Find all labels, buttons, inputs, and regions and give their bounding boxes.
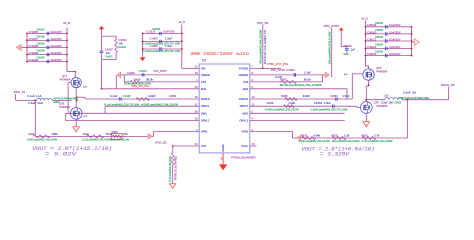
wire PVDD0 pin7 [250,62,288,69]
svg-text:102R,smd0402,1%,1/10W: 102R,smd0402,1%,1/10W [27,140,58,142]
svg-text:10k,smd0402,5%,1/16W: 10k,smd0402,5%,1/16W [329,30,331,64]
svg-text:R466: R466 [267,102,274,105]
svg-text:= 5.02V: = 5.02V [45,152,77,158]
ground below Q76 [363,113,370,126]
capacitor C1404 1.5uF [142,44,183,53]
transistor Q77 PH3456A [60,71,88,89]
svg-text:R478 15.1k R0402: R478 15.1k R0402 [174,155,177,180]
svg-text:C1404: C1404 [150,44,159,48]
svg-text:CM105: CM105 [375,36,384,39]
power symbol P5V_STBY [339,27,344,46]
svg-text:R465: R465 [281,95,288,98]
value TPS51220ARNR [231,155,256,159]
svg-text:P5V_S5: P5V_S5 [257,21,269,25]
svg-text:EN2: EN2 [243,87,249,91]
ground below Q78 [73,119,80,132]
svg-text:CM105: CM105 [37,57,46,60]
svg-text:R470 0R 1uF GND2 TR: R470 0R 1uF GND2 TR [264,30,267,64]
svg-text:4.02R: 4.02R [148,95,156,98]
svg-text:10uF/25V: 10uF/25V [389,30,401,34]
transistor Q75 PH3456A [344,66,387,80]
resistor R820 2.7k [362,134,394,143]
capacitor C1405 1.5uF [142,37,183,46]
svg-text:C1340: C1340 [123,95,132,98]
svg-text:10uF/25V: 10uF/25V [389,52,401,56]
svg-text:GND2: GND2 [53,101,60,104]
svg-text:CM105: CM105 [37,28,46,31]
capacitor C309 10uF/25V [26,50,68,57]
ground below R478 [170,184,176,189]
wire RC bottom bar [102,59,117,61]
wire output sense right [407,100,409,138]
resistor R476 38.3k on CS1 row [124,75,199,88]
resistor R473 36.5k on CS2 row [250,75,323,87]
ground GND2 below bank2 [140,56,144,61]
capacitor C310 10uF/25V [142,28,183,35]
ground pin 21 of U2 [219,153,226,170]
node AC_IN label [63,21,70,25]
svg-text:VREG6: VREG6 [201,73,211,77]
resistor R819 1.5k [332,134,361,143]
svg-text:10uF/25V: 10uF/25V [50,44,62,48]
capacitor C307 10uF/25V [26,35,68,42]
svg-text:C1406: C1406 [127,72,136,75]
svg-text:Q76: Q76 [374,100,380,104]
wire SW2 pin5 [250,112,345,114]
svg-text:1uF: 1uF [351,48,356,51]
svg-text:P5V_PV_PG: P5V_PV_PG [132,85,149,88]
node AC_N label [179,20,185,24]
svg-text:INV_S1: INV_S1 [155,141,167,145]
svg-text:1.5uF: 1.5uF [165,37,172,41]
wire VO1 pin14 [155,141,199,147]
svg-text:8.R: 8.R [84,116,88,118]
svg-text:R409: R409 [83,133,90,136]
svg-text:4.02R,smd0402,1%,1/10W: 4.02R,smd0402,1%,1/10W [265,108,300,111]
svg-text:1.5uF,smd0402,25V,TR,10%: 1.5uF,smd0402,25V,TR,10% [310,108,348,111]
svg-text:AC_N: AC_N [179,20,185,24]
svg-text:VREGD: VREGD [239,73,249,77]
svg-text:10k,smd0402,1%: 10k,smd0402,1% [110,140,129,142]
svg-text:C1350: C1350 [330,95,338,98]
svg-text:SW2: SW2 [242,111,248,115]
svg-text:EN1: EN1 [201,87,207,91]
svg-text:36.5k: 36.5k [304,78,312,82]
svg-text:C1403: C1403 [139,70,148,73]
svg-text:10uF/25V: 10uF/25V [389,37,401,41]
svg-text:CM105: CM105 [152,28,161,31]
svg-text:10uF/25V: 10uF/25V [389,23,401,27]
transistor Q76 PH3456A [361,100,402,113]
capacitor C308 10uF/25V [26,42,68,49]
wire VCLK pin15 [250,145,257,147]
node P5V_STBY column [324,24,340,77]
wire feedback row left [35,135,147,137]
svg-text:1.5uF: 1.5uF [165,44,172,48]
svg-text:SW1: SW1 [201,111,207,115]
wire DRVH2 pin10 with R465 C1350 [250,74,363,101]
svg-text:C1351 1.5uF: C1351 1.5uF [314,102,332,105]
svg-text:R818: R818 [301,134,308,137]
svg-text:R820: R820 [362,134,369,137]
wire VBST1 pin17 [105,106,199,113]
port arrow to VFB1 [148,132,199,139]
port arrow from VFB2 [297,135,301,140]
wire SW1 pin16 to phase with C1340 R463 [76,95,200,106]
svg-text:= 3.325V: = 3.325V [320,151,350,157]
wire pin19 to Q78 gate [66,113,200,120]
wire VREG6 pin13 with cap C1403 [116,70,199,89]
svg-text:CS1: CS1 [201,80,207,84]
svg-text:0.1uF: 0.1uF [110,95,118,98]
op-amp U2 controller box [195,59,255,153]
svg-text:VO1: VO1 [201,144,207,148]
svg-text:AC_IN: AC_IN [63,21,70,25]
wire phase node left [76,88,78,108]
node P3V3_S5 [441,83,455,100]
svg-text:GND2: GND2 [395,101,402,104]
svg-text:15.1k,smd0402,1%,1/16W: 15.1k,smd0402,1%,1/16W [82,140,112,142]
wire VIN pin12 [182,67,199,69]
svg-text:R463: R463 [170,95,177,98]
capacitor C820 10uF/25V [365,29,413,36]
title text 30W [190,51,249,57]
svg-text:R1304: R1304 [119,38,128,42]
wire DRVL1 pin18 to Q77 gate [68,83,199,114]
svg-text:8.R: 8.R [83,87,87,89]
port arrow right of bank3 [412,38,420,45]
wire feedback row right [301,137,408,139]
svg-text:AGND: AGND [221,144,225,152]
wire EN2 pin6 [250,89,347,100]
svg-text:R476: R476 [134,77,141,81]
svg-text:GND: GND [343,53,349,56]
wire RC stem to EN1 row [101,60,103,90]
svg-text:10uF/25V: 10uF/25V [50,58,62,62]
svg-text:C1405: C1405 [150,37,159,41]
resistor R1304 10k [115,36,127,59]
svg-text:14: 14 [195,142,198,146]
svg-text:4.02R: 4.02R [303,95,310,98]
svg-text:DRVL2: DRVL2 [239,119,248,123]
svg-text:C1407: C1407 [105,47,114,51]
svg-text:2.2uF 3A: 2.2uF 3A [403,91,416,94]
svg-text:CM105: CM105 [37,50,46,53]
capacitor C1408 1uF [341,45,355,56]
node AC_N right label [361,17,367,21]
svg-text:10uF/25V: 10uF/25V [50,30,62,34]
svg-text:10k: 10k [119,42,124,46]
svg-text:APGDA40604B: APGDA40604B [399,97,430,100]
capacitor C823 10uF/25V [365,51,413,58]
svg-text:2.2uF 10A: 2.2uF 10A [381,101,393,104]
svg-text:6.04k: 6.04k [314,134,321,137]
capacitor C822 10uF/25V [365,43,413,50]
wire bank3 left rail [364,21,366,67]
wire EN1 pin20 [102,88,200,90]
svg-text:15: 15 [252,142,255,146]
svg-text:102R: 102R [52,133,58,136]
svg-text:CM105: CM105 [375,43,384,46]
svg-text:VCLK: VCLK [241,144,248,148]
svg-text:6.04k,smd0402,1%,1/16W: 6.04k,smd0402,1%,1/16W [299,141,331,143]
svg-text:13k,smd0402,1%,1/16W: 13k,smd0402,1%,1/16W [332,141,361,143]
svg-text:1.5k: 1.5k [344,134,350,137]
svg-text:P5V_STBY: P5V_STBY [154,70,168,73]
svg-text:R0402: R0402 [119,46,127,49]
svg-text:VFB1: VFB1 [201,130,208,134]
svg-text:PVDD0: PVDD0 [239,66,248,70]
svg-text:30W 102K/155K auto: 30W 102K/155K auto [190,51,249,57]
wire phase node right [365,80,369,101]
svg-text:10uF/25V: 10uF/25V [389,45,401,49]
wire - left bank right rail (AC_IN) [66,28,68,72]
capacitor C819 10uF/25V [365,22,413,29]
svg-text:4.02R: 4.02R [288,102,295,105]
wire VREGD pin8 row [250,69,330,79]
svg-text:CM105: CM105 [375,29,384,32]
svg-text:R402: R402 [29,133,36,136]
wire - bank2 right rail (AC_N) [181,25,183,69]
resistor R478 vertical below VO1 [170,146,177,184]
svg-text:15.1k,smd0402,1%,1/16W: 15.1k,smd0402,1%,1/16W [170,155,172,182]
svg-text:PH3456A: PH3456A [376,69,387,73]
svg-text:AC_N: AC_N [361,17,367,21]
svg-text:TPS51220ARNR: TPS51220ARNR [231,155,256,159]
svg-text:L1B: L1B [384,94,389,97]
capacitor C1407 1uF [100,36,114,59]
svg-text:0.1uF L1A: 0.1uF L1A [28,95,42,98]
svg-text:PH3456A: PH3456A [377,104,388,108]
svg-text:CM105: CM105 [375,22,384,25]
svg-text:P3V3_S5: P3V3_S5 [441,83,455,87]
svg-text:10uF/25V: 10uF/25V [50,37,62,41]
svg-text:DRVL1: DRVL1 [201,119,210,123]
wire - left bank left rail [26,33,28,61]
svg-text:R819: R819 [332,134,339,137]
wire - bank2 left rail [142,33,144,56]
svg-text:1.5uF: 1.5uF [343,95,351,98]
svg-text:DRVH1: DRVH1 [201,97,211,101]
svg-text:VIN: VIN [201,66,206,70]
wire bank3 right rail [411,27,413,56]
svg-text:PH3456A: PH3456A [60,77,71,81]
svg-text:10uF/25V: 10uF/25V [163,30,175,34]
resistor R405 10k highlighted [110,131,129,142]
svg-text:PH3456A: PH3456A [59,105,70,109]
svg-text:CM105: CM105 [375,51,384,54]
resistor R402 102R [27,133,58,142]
svg-text:PSU_S1: PSU_S1 [14,90,26,94]
port arrow left of bank1 [16,44,27,50]
svg-text:DRVH2: DRVH2 [239,97,249,101]
wire RC top bar [102,35,117,37]
text VOUT right [302,146,375,157]
wire DRVL2 pin4 [250,120,345,122]
svg-text:R473: R473 [280,78,287,82]
svg-text:R405: R405 [112,131,119,134]
svg-text:U2: U2 [202,59,206,63]
svg-text:1uF: 1uF [106,51,111,55]
svg-text:2.7k,smd0402,1%,1/16W: 2.7k,smd0402,1%,1/16W [362,141,394,143]
node PSU_S1 [14,90,37,100]
text VOUT left [32,146,112,157]
svg-text:P5V_STBY: P5V_STBY [324,24,340,28]
svg-text:1.5uF/smd3216,25V,TR 10%: 1.5uF/smd3216,25V,TR 10% [143,50,181,53]
svg-text:1.1uF: 1.1uF [304,71,312,74]
resistor R818 6.04k [299,134,331,143]
inductor L1A [28,95,79,105]
wire VBST2 pin11 row [250,102,361,112]
svg-text:P5V_PV_PG: P5V_PV_PG [267,62,288,66]
inductor L1B [366,91,448,100]
capacitor C306 10uF/25V [26,57,68,64]
svg-text:4.R: 4.R [344,74,348,76]
svg-text:10uF/25V: 10uF/25V [50,51,62,55]
svg-text:VBST2: VBST2 [240,104,249,108]
svg-text:CM105: CM105 [37,42,46,45]
wire output sense left [34,100,36,136]
svg-text:38.3k: 38.3k [146,77,154,81]
capacitor C305 10uF/25V [26,28,68,35]
svg-text:CM105: CM105 [37,35,46,38]
svg-text:VFB2: VFB2 [241,130,248,134]
resistor R409 15.1k [82,133,113,142]
capacitor C821 10uF/25V [365,36,413,43]
wire VFB2 pin3 [250,132,297,138]
power symbol P5V [99,26,104,37]
svg-text:0R,smd0402,5%,1/10W: 0R,smd0402,5%,1/10W [260,28,262,63]
node P5V_S5 column [257,21,269,70]
svg-text:P5V_STBY C1402: P5V_STBY C1402 [271,69,296,72]
svg-text:36.5k,smd0402,1%,1/16W: 36.5k,smd0402,1%,1/16W [280,84,323,87]
transistor Q78 PH3456A [59,102,87,120]
svg-text:2.7k: 2.7k [374,134,380,137]
svg-text:1.5uF 10A: 1.5uF 10A [28,102,43,105]
svg-text:GND2: GND2 [105,55,113,58]
svg-text:VBST1: VBST1 [201,104,210,108]
svg-text:CS2: CS2 [243,80,249,84]
